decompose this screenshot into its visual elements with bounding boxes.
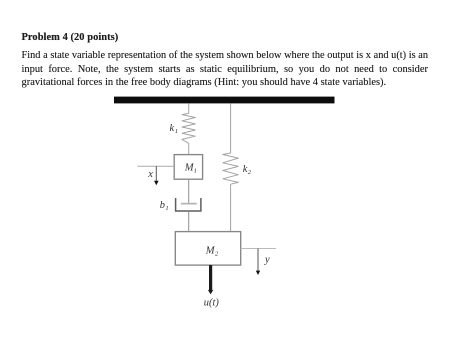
wire: ceiling to spring k1 (188, 103, 190, 113)
damper b1 piston plate (181, 203, 197, 205)
wire: spring k2 to mass M2 (230, 184, 232, 231)
spring k2 (223, 153, 239, 184)
wire: spring k1 to mass M1 (188, 143, 190, 154)
svg-text:1: 1 (165, 205, 168, 212)
x reference line (138, 165, 175, 167)
svg-text:2: 2 (248, 169, 252, 176)
force u(t) arrow (208, 265, 213, 294)
svg-text:x: x (147, 169, 153, 180)
y reference line (241, 248, 276, 250)
svg-text:b: b (160, 200, 165, 211)
title (22, 31, 119, 44)
label M2 (205, 245, 219, 257)
mass M1 (174, 155, 202, 180)
y arrow (256, 249, 260, 276)
svg-text:u(t): u(t) (204, 297, 220, 308)
svg-text:y: y (264, 255, 270, 266)
mass M2 (175, 232, 240, 266)
label k1 (170, 123, 178, 135)
svg-text:1: 1 (194, 168, 197, 175)
label M1 (184, 163, 197, 175)
wire: damper to mass M2 (188, 211, 190, 231)
wire: mass M1 to damper piston rod (188, 179, 190, 203)
problem statement paragraph (22, 49, 429, 89)
ceiling bar (114, 97, 335, 104)
label b1 (160, 200, 169, 212)
x arrow (154, 166, 159, 185)
wire: ceiling to spring k2 (230, 103, 232, 153)
label k2 (243, 164, 252, 176)
damper b1 cylinder cup (176, 198, 201, 211)
svg-text:1: 1 (175, 128, 178, 135)
spring k1 (182, 113, 195, 143)
